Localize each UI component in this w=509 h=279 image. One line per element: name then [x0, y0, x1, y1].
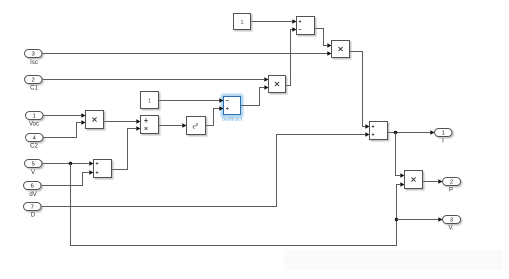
- sum block Add (plus minus): [297, 17, 315, 35]
- faint bottom-right panel: [284, 250, 503, 271]
- svg-text:3: 3: [450, 217, 453, 223]
- product block Product2 (top right): [332, 41, 350, 58]
- constant block 1 (middle): [141, 92, 159, 109]
- outport 2 P: [443, 178, 461, 186]
- svg-text:Isc: Isc: [30, 60, 38, 66]
- svg-text:6: 6: [31, 183, 34, 189]
- wire Add2 to Divide bottom input: [112, 129, 137, 170]
- product block Product1: [269, 76, 286, 93]
- svg-text:C2: C2: [30, 144, 38, 150]
- sum block Add2 (V plus dV): [94, 160, 112, 178]
- wire Voc to Product: [43, 115, 81, 117]
- wire V down and along bottom to Product3: [71, 164, 401, 246]
- node V bottom junction: [395, 218, 398, 221]
- outport 3 V.: [443, 216, 461, 224]
- wire Product2 to Add1 top input: [350, 52, 366, 127]
- inport 1 Voc: [26, 112, 44, 120]
- wire Divide to Exp: [159, 125, 183, 127]
- node V junction: [69, 162, 72, 165]
- sum block Add1 (right): [370, 122, 388, 140]
- svg-text:1: 1: [240, 20, 243, 26]
- svg-text:1: 1: [148, 98, 151, 104]
- wire Constant to Add plus input: [251, 21, 293, 23]
- wire Product3 to outport P: [423, 181, 439, 183]
- svg-text:5: 5: [32, 161, 35, 167]
- svg-text:C1: C1: [30, 86, 38, 92]
- inport 4 C2: [26, 134, 44, 142]
- inport 2 C1: [25, 76, 43, 84]
- subtract block (selected) halo: [221, 94, 244, 118]
- svg-text:V: V: [31, 170, 35, 176]
- svg-text:Voc: Voc: [29, 121, 39, 127]
- wire V to Add2: [42, 163, 89, 165]
- svg-text:Subtract: Subtract: [222, 116, 243, 122]
- wire Product1 to Add minus input: [286, 30, 293, 86]
- wire Add to Product2: [315, 29, 328, 46]
- inport 5 V: [25, 160, 43, 168]
- svg-text:P: P: [449, 187, 453, 193]
- wire V junction to outport V.: [397, 219, 439, 221]
- inport 7 D: [24, 203, 42, 211]
- svg-text:V.: V.: [448, 225, 453, 231]
- svg-text:D: D: [31, 213, 36, 219]
- node Add1 output junction: [394, 131, 397, 134]
- product block Product3 (P): [405, 171, 423, 189]
- math function block Exp: [187, 117, 206, 135]
- inport 3 Isc: [25, 50, 43, 58]
- inport 6 dV: [24, 182, 42, 190]
- wire D to Add1 bottom input: [41, 135, 365, 207]
- svg-text:7: 7: [31, 204, 34, 210]
- subtract block Subtract: [222, 97, 243, 123]
- svg-text:2: 2: [32, 77, 35, 83]
- wire Constant1 to Subtract minus input: [159, 100, 220, 102]
- constant block 1 (top): [234, 14, 251, 30]
- wire C1 to Product1: [42, 79, 264, 81]
- svg-text:3: 3: [32, 51, 35, 57]
- wire Add1 junction down to Product3 top input: [396, 133, 401, 176]
- svg-text:2: 2: [450, 179, 453, 185]
- wire C2 to Product: [43, 123, 81, 138]
- outport 1 I: [435, 129, 453, 137]
- divide block Divide: [141, 116, 159, 134]
- wire Exp to Subtract plus input: [206, 109, 220, 126]
- svg-text:1: 1: [442, 130, 445, 136]
- product block Product (Voc x C2): [86, 111, 104, 129]
- wire Add1 to outport I: [388, 132, 431, 134]
- wire Product to Divide: [104, 121, 137, 123]
- svg-text:dV: dV: [29, 192, 36, 198]
- wire Isc to Product2: [42, 53, 328, 55]
- wire dV to Add2: [41, 173, 89, 186]
- wire Subtract to Product1: [241, 88, 265, 106]
- svg-text:1: 1: [33, 113, 36, 119]
